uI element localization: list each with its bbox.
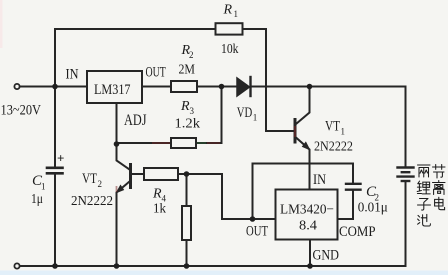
svg-text:1: 1 — [341, 127, 346, 137]
wire: vertical resistor to ground rail — [186, 240, 188, 266]
svg-text:R: R — [152, 187, 162, 202]
capacitor C1 bottom plate — [47, 172, 63, 175]
battery BT1 plate long 2 — [398, 175, 414, 177]
resistor R5 vertical — [182, 206, 191, 240]
wire: node A down to R3 — [196, 87, 222, 144]
char JIE — [433, 165, 446, 179]
IC U2 LM3420 box — [276, 190, 338, 240]
svg-text:IN: IN — [66, 67, 79, 83]
svg-text:1k: 1k — [153, 202, 166, 217]
junction: R4/R5/OUT node B — [184, 171, 190, 177]
svg-text:OUT: OUT — [246, 224, 268, 240]
wire: LM317 OUT to R2 — [142, 86, 171, 88]
junction: R2/VD1/R3 node A — [219, 84, 225, 90]
transistor Q2 VT2 base bar — [129, 165, 132, 188]
junction: C1 at ground rail — [52, 263, 58, 269]
battery BT1 plate long 1 — [398, 166, 414, 168]
bottom blue band — [0, 271, 448, 275]
junction: OUT riser — [250, 216, 256, 222]
battery BT1 plate short 2 — [402, 180, 409, 182]
wire: node B down to vertical resistor — [186, 174, 188, 206]
wire: riser to top rail — [55, 29, 216, 87]
wire: VD1 cathode to VT1 collector node — [251, 86, 310, 88]
svg-text:2M: 2M — [179, 63, 196, 78]
svg-text:8.4: 8.4 — [299, 219, 317, 234]
transistor Q2 VT2 emitter — [117, 182, 130, 267]
capacitor C2 bottom plate — [346, 188, 361, 190]
transistor Q1 VT1 collector — [296, 87, 310, 125]
svg-text:VD: VD — [237, 105, 253, 121]
junction: VT1 collector node — [307, 84, 313, 90]
op-amp U1 LM317 box — [87, 71, 142, 103]
junction: ADJ/R3/VT2 collector — [114, 141, 120, 147]
input terminal bottom — [14, 263, 19, 268]
capacitor C1 wire upper — [54, 87, 56, 167]
wire: R3 to ADJ node — [117, 142, 172, 144]
svg-text:GND: GND — [313, 248, 340, 264]
svg-text:VT: VT — [325, 119, 340, 135]
wire: VT1 node to battery plus rail — [310, 87, 406, 167]
capacitor C2 top plate — [346, 183, 361, 185]
svg-text:1: 1 — [234, 9, 239, 19]
diode VD1 — [237, 78, 250, 96]
svg-text:0.01μ: 0.01μ — [358, 201, 388, 216]
junction: VT2 emitter at ground rail — [114, 263, 120, 269]
svg-text:OUT: OUT — [146, 65, 166, 81]
wire: input to LM317 IN — [20, 86, 87, 88]
wire: battery minus stub — [405, 182, 407, 267]
battery BT1 plate short 1 — [402, 171, 409, 173]
battery label: two-cell lithium-ion battery (hand-drawn CJK strokes) — [417, 165, 445, 227]
transistor Q2 VT2 collector — [117, 144, 130, 170]
junction: GND pin at ground rail — [307, 263, 313, 269]
svg-text:COMP: COMP — [339, 224, 376, 240]
svg-text:1: 1 — [41, 182, 46, 192]
capacitor C1 top plate — [47, 167, 63, 170]
char DIAN — [435, 197, 445, 209]
char ZI — [418, 199, 431, 211]
input terminal top — [14, 84, 19, 89]
char LI-leave — [433, 181, 446, 195]
wire: node B to LM3420 OUT — [222, 174, 276, 219]
svg-text:R: R — [223, 3, 233, 18]
transistor Q1 VT1 emitter — [296, 138, 310, 190]
svg-text:2N2222: 2N2222 — [71, 194, 113, 209]
svg-text:1.2k: 1.2k — [175, 117, 201, 132]
wire: R1 to VT1 base drop — [243, 29, 294, 131]
svg-text:2: 2 — [189, 50, 194, 60]
char LI-metal — [417, 181, 430, 194]
svg-text:1μ: 1μ — [31, 192, 43, 207]
svg-text:ADJ: ADJ — [124, 112, 147, 129]
svg-text:1: 1 — [253, 113, 257, 123]
junction: R5 at ground rail — [184, 263, 190, 269]
left pink edge — [0, 0, 3, 48]
wire: C2 to COMP pin — [338, 191, 354, 219]
svg-text:2N2222: 2N2222 — [314, 140, 353, 155]
scan chroma artifacts (decorative-matching tints) — [117, 126, 296, 192]
wire: LM3420 GND pin drop — [309, 240, 311, 267]
junction: input/C1/top-rail — [52, 84, 58, 90]
wire: LM317 ADJ pin drop — [116, 103, 118, 144]
wire: OUT riser to compensation line — [253, 164, 354, 220]
svg-text:VT: VT — [82, 171, 97, 187]
char LIANG — [418, 165, 431, 177]
svg-text:3: 3 — [190, 106, 195, 116]
svg-text:LM317: LM317 — [94, 82, 131, 98]
svg-text:LM3420−: LM3420− — [280, 203, 334, 218]
wire: R4 to node B — [178, 173, 222, 175]
svg-text:10k: 10k — [221, 42, 239, 57]
wire: bottom ground rail — [20, 265, 406, 267]
wire: diode branch — [222, 86, 237, 88]
svg-text:2: 2 — [98, 179, 103, 189]
transistor Q1 VT1 base bar — [294, 120, 297, 143]
wire: VT2 base to R4 — [132, 173, 144, 175]
resistor R2 — [171, 81, 197, 92]
svg-text:+: + — [57, 151, 64, 166]
char CHI — [418, 214, 431, 226]
capacitor C1 wire lower — [54, 175, 56, 267]
svg-text:IN: IN — [313, 172, 326, 188]
resistor R3 — [171, 138, 196, 148]
transistor Q2 VT2 emitter arrow — [117, 185, 124, 192]
resistor R1 — [216, 23, 243, 34]
svg-text:R: R — [180, 99, 190, 114]
transistor Q1 VT1 emitter arrow — [303, 142, 310, 149]
resistor R4 — [144, 168, 178, 180]
svg-text:13~20V: 13~20V — [1, 103, 42, 119]
wire: R2 to node A — [197, 86, 222, 88]
